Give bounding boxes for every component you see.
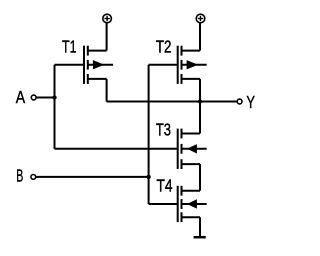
- wire A to T1 gate: [55, 64, 84, 66]
- junction Y node: [198, 99, 202, 103]
- svg-text:T3: T3: [156, 120, 171, 140]
- wire B riser: [148, 65, 150, 204]
- wire A to T3 gate: [55, 148, 177, 150]
- ground: [194, 236, 206, 239]
- wire T3 drain riser from Y line: [199, 102, 201, 134]
- wire T2 drain riser to Y line: [199, 79, 201, 102]
- wire T3 source to T4 drain: [199, 164, 201, 191]
- transistor T2 (PMOS): [178, 46, 207, 84]
- terminal Y (open circle): [237, 99, 242, 104]
- transistor T4 (NMOS): [178, 186, 207, 222]
- supply symbol VDD2 (circle with plus): [196, 14, 205, 23]
- junction node A: [52, 95, 56, 99]
- wire T1 drain riser to Y line: [106, 79, 108, 102]
- svg-text:A: A: [16, 87, 25, 107]
- transistor T1 (PMOS): [84, 46, 113, 84]
- terminal A (open circle): [31, 95, 36, 100]
- svg-text:T1: T1: [62, 37, 77, 57]
- wire T4 source to ground: [199, 217, 201, 237]
- transistor T3 (NMOS): [178, 129, 207, 169]
- wire A riser: [54, 65, 56, 149]
- wire VDD1 stem to T1 drain: [106, 23, 108, 51]
- svg-text:B: B: [16, 166, 23, 186]
- wire B horizontal: [36, 176, 149, 178]
- wire Y net horizontal: [107, 101, 238, 103]
- svg-text:T2: T2: [156, 36, 172, 56]
- supply symbol VDD1 (circle with plus): [103, 14, 112, 23]
- wire A horizontal: [36, 97, 54, 99]
- wire B to T4 gate: [149, 203, 177, 205]
- svg-text:T4: T4: [157, 175, 173, 195]
- svg-text:Y: Y: [246, 92, 255, 112]
- wire VDD2 stem to T2 drain: [199, 23, 201, 51]
- terminal B (open circle): [31, 175, 36, 180]
- wire B to T2 gate: [149, 64, 177, 66]
- junction node B: [146, 175, 150, 179]
